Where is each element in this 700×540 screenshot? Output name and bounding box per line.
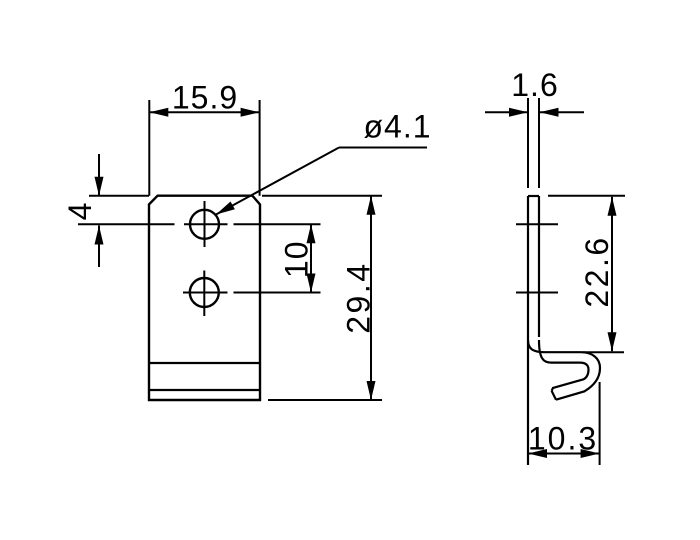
svg-text:10.3: 10.3 xyxy=(528,421,598,457)
side view hole H1 mark xyxy=(516,223,558,225)
side view hook tip end cap xyxy=(552,391,556,400)
dimension 22.6 bottom extension xyxy=(583,351,624,353)
dimension 10 line xyxy=(310,224,312,292)
centerline through H1 / extension for dims 4 and 10 xyxy=(78,223,321,225)
side view left edge plus extension down to 10.3 xyxy=(527,196,529,465)
svg-text:10: 10 xyxy=(279,241,315,279)
side view hole H2 mark xyxy=(516,292,558,294)
arrow 22.6 top (up) xyxy=(608,197,617,216)
arrow 10 bottom (down) xyxy=(307,274,316,293)
arrow 4 lower (up) xyxy=(95,226,104,245)
dimension 15.9 line xyxy=(149,111,259,113)
side view hook inner contour xyxy=(539,340,589,391)
dimension 15.9 extension lines xyxy=(149,100,259,196)
arrow 1.6 left (right-pointing) xyxy=(509,108,528,117)
arrow 15.9 left xyxy=(149,108,168,117)
centerline through H2 / extension for dim 10 xyxy=(183,292,321,294)
bend line upper xyxy=(149,362,260,364)
arrow leader tip xyxy=(216,202,235,215)
leader line for hole diameter xyxy=(216,148,427,215)
arrow 15.9 right xyxy=(241,108,260,117)
dimension 1.6 extension lines xyxy=(528,98,539,188)
arrow 1.6 right (left-pointing) xyxy=(540,108,559,117)
svg-text:4: 4 xyxy=(62,202,98,221)
svg-text:1.6: 1.6 xyxy=(511,67,558,103)
front view outline xyxy=(149,196,260,400)
svg-text:15.9: 15.9 xyxy=(172,80,238,116)
side view top cap xyxy=(528,195,539,197)
bend line lower xyxy=(149,389,260,391)
dimension 22.6 line xyxy=(611,197,613,352)
dimension 4 witness lines xyxy=(89,154,149,267)
arrow 10.3 left xyxy=(528,449,547,458)
dimension 1.6 line left part xyxy=(485,111,528,113)
dimension 10.3 right extension xyxy=(599,382,601,465)
dimension 29.4 extension lines xyxy=(262,196,382,400)
hole H1 vertical centerline xyxy=(204,201,206,247)
arrow 10 top (up) xyxy=(307,224,316,243)
arrow 10.3 right xyxy=(581,449,600,458)
dimension 29.4 line xyxy=(370,196,372,400)
svg-text:ø4.1: ø4.1 xyxy=(363,109,431,145)
side view hook outer contour xyxy=(528,340,600,400)
arrow 22.6 bottom (down) xyxy=(608,332,617,351)
dimension 22.6 top extension xyxy=(548,195,625,197)
svg-text:22.6: 22.6 xyxy=(579,235,615,307)
arrow 4 upper (down) xyxy=(95,177,104,196)
arrow 29.4 bottom (down) xyxy=(367,381,376,400)
hole H1 circle xyxy=(190,210,219,239)
dimension 10.3 line xyxy=(528,453,600,455)
hole H2 vertical centerline xyxy=(203,271,205,317)
dimension 1.6 line right part xyxy=(540,111,585,113)
hole H2 circle xyxy=(190,278,219,307)
svg-text:29.4: 29.4 xyxy=(341,261,377,333)
arrow 29.4 top (up) xyxy=(367,196,376,215)
side view right edge xyxy=(538,196,540,337)
